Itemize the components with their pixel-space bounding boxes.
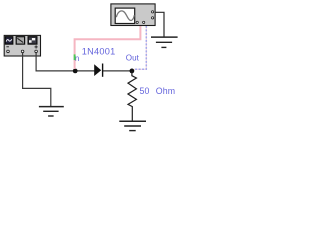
wire channel A (red) scope to node n — [75, 26, 141, 69]
node connector green tick — [74, 54, 76, 60]
svg-text:50Ohm: 50Ohm — [140, 86, 176, 96]
wire common to ground — [23, 53, 51, 106]
node Out junction — [130, 69, 135, 74]
wire channel B (blue dashed) scope to node Out — [134, 26, 147, 69]
terminal common — [21, 50, 24, 53]
wire scope to ground — [155, 12, 164, 36]
svg-text:1N4001: 1N4001 — [82, 46, 116, 56]
terminal minus — [7, 50, 10, 53]
function generator — [4, 35, 40, 56]
scope terminal A — [136, 21, 138, 23]
scope terminal B — [143, 21, 145, 23]
svg-text:Out: Out — [126, 53, 140, 62]
node n junction — [73, 69, 78, 74]
scope terminal ground — [152, 11, 154, 13]
wire plus to node n — [36, 53, 95, 71]
ground left — [39, 107, 64, 116]
resistor 50 Ohm — [128, 71, 136, 121]
wire diode to node Out — [103, 70, 132, 72]
ground at scope — [151, 37, 178, 47]
plus label — [35, 45, 38, 48]
terminal plus — [35, 50, 38, 53]
minus label — [6, 46, 8, 48]
ground below resistor — [119, 121, 146, 130]
diode 1N4001 — [94, 64, 102, 77]
oscilloscope — [111, 4, 155, 26]
scope terminal trigger — [152, 17, 154, 19]
